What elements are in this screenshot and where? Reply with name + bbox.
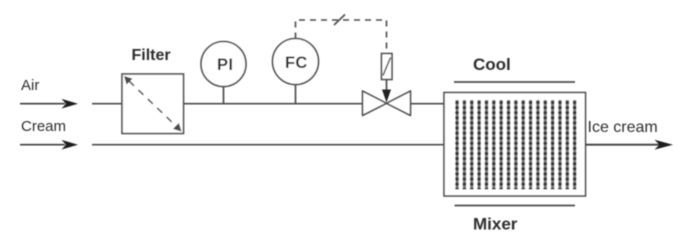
svg-text:Air: Air (21, 77, 39, 94)
svg-text:Mixer: Mixer (473, 215, 518, 234)
svg-text:Cream: Cream (21, 118, 66, 135)
svg-text:Filter: Filter (132, 47, 171, 64)
svg-text:Ice cream: Ice cream (588, 119, 658, 136)
svg-text:Cool: Cool (473, 55, 511, 74)
svg-text:PI: PI (217, 56, 233, 74)
svg-text:FC: FC (285, 54, 308, 72)
